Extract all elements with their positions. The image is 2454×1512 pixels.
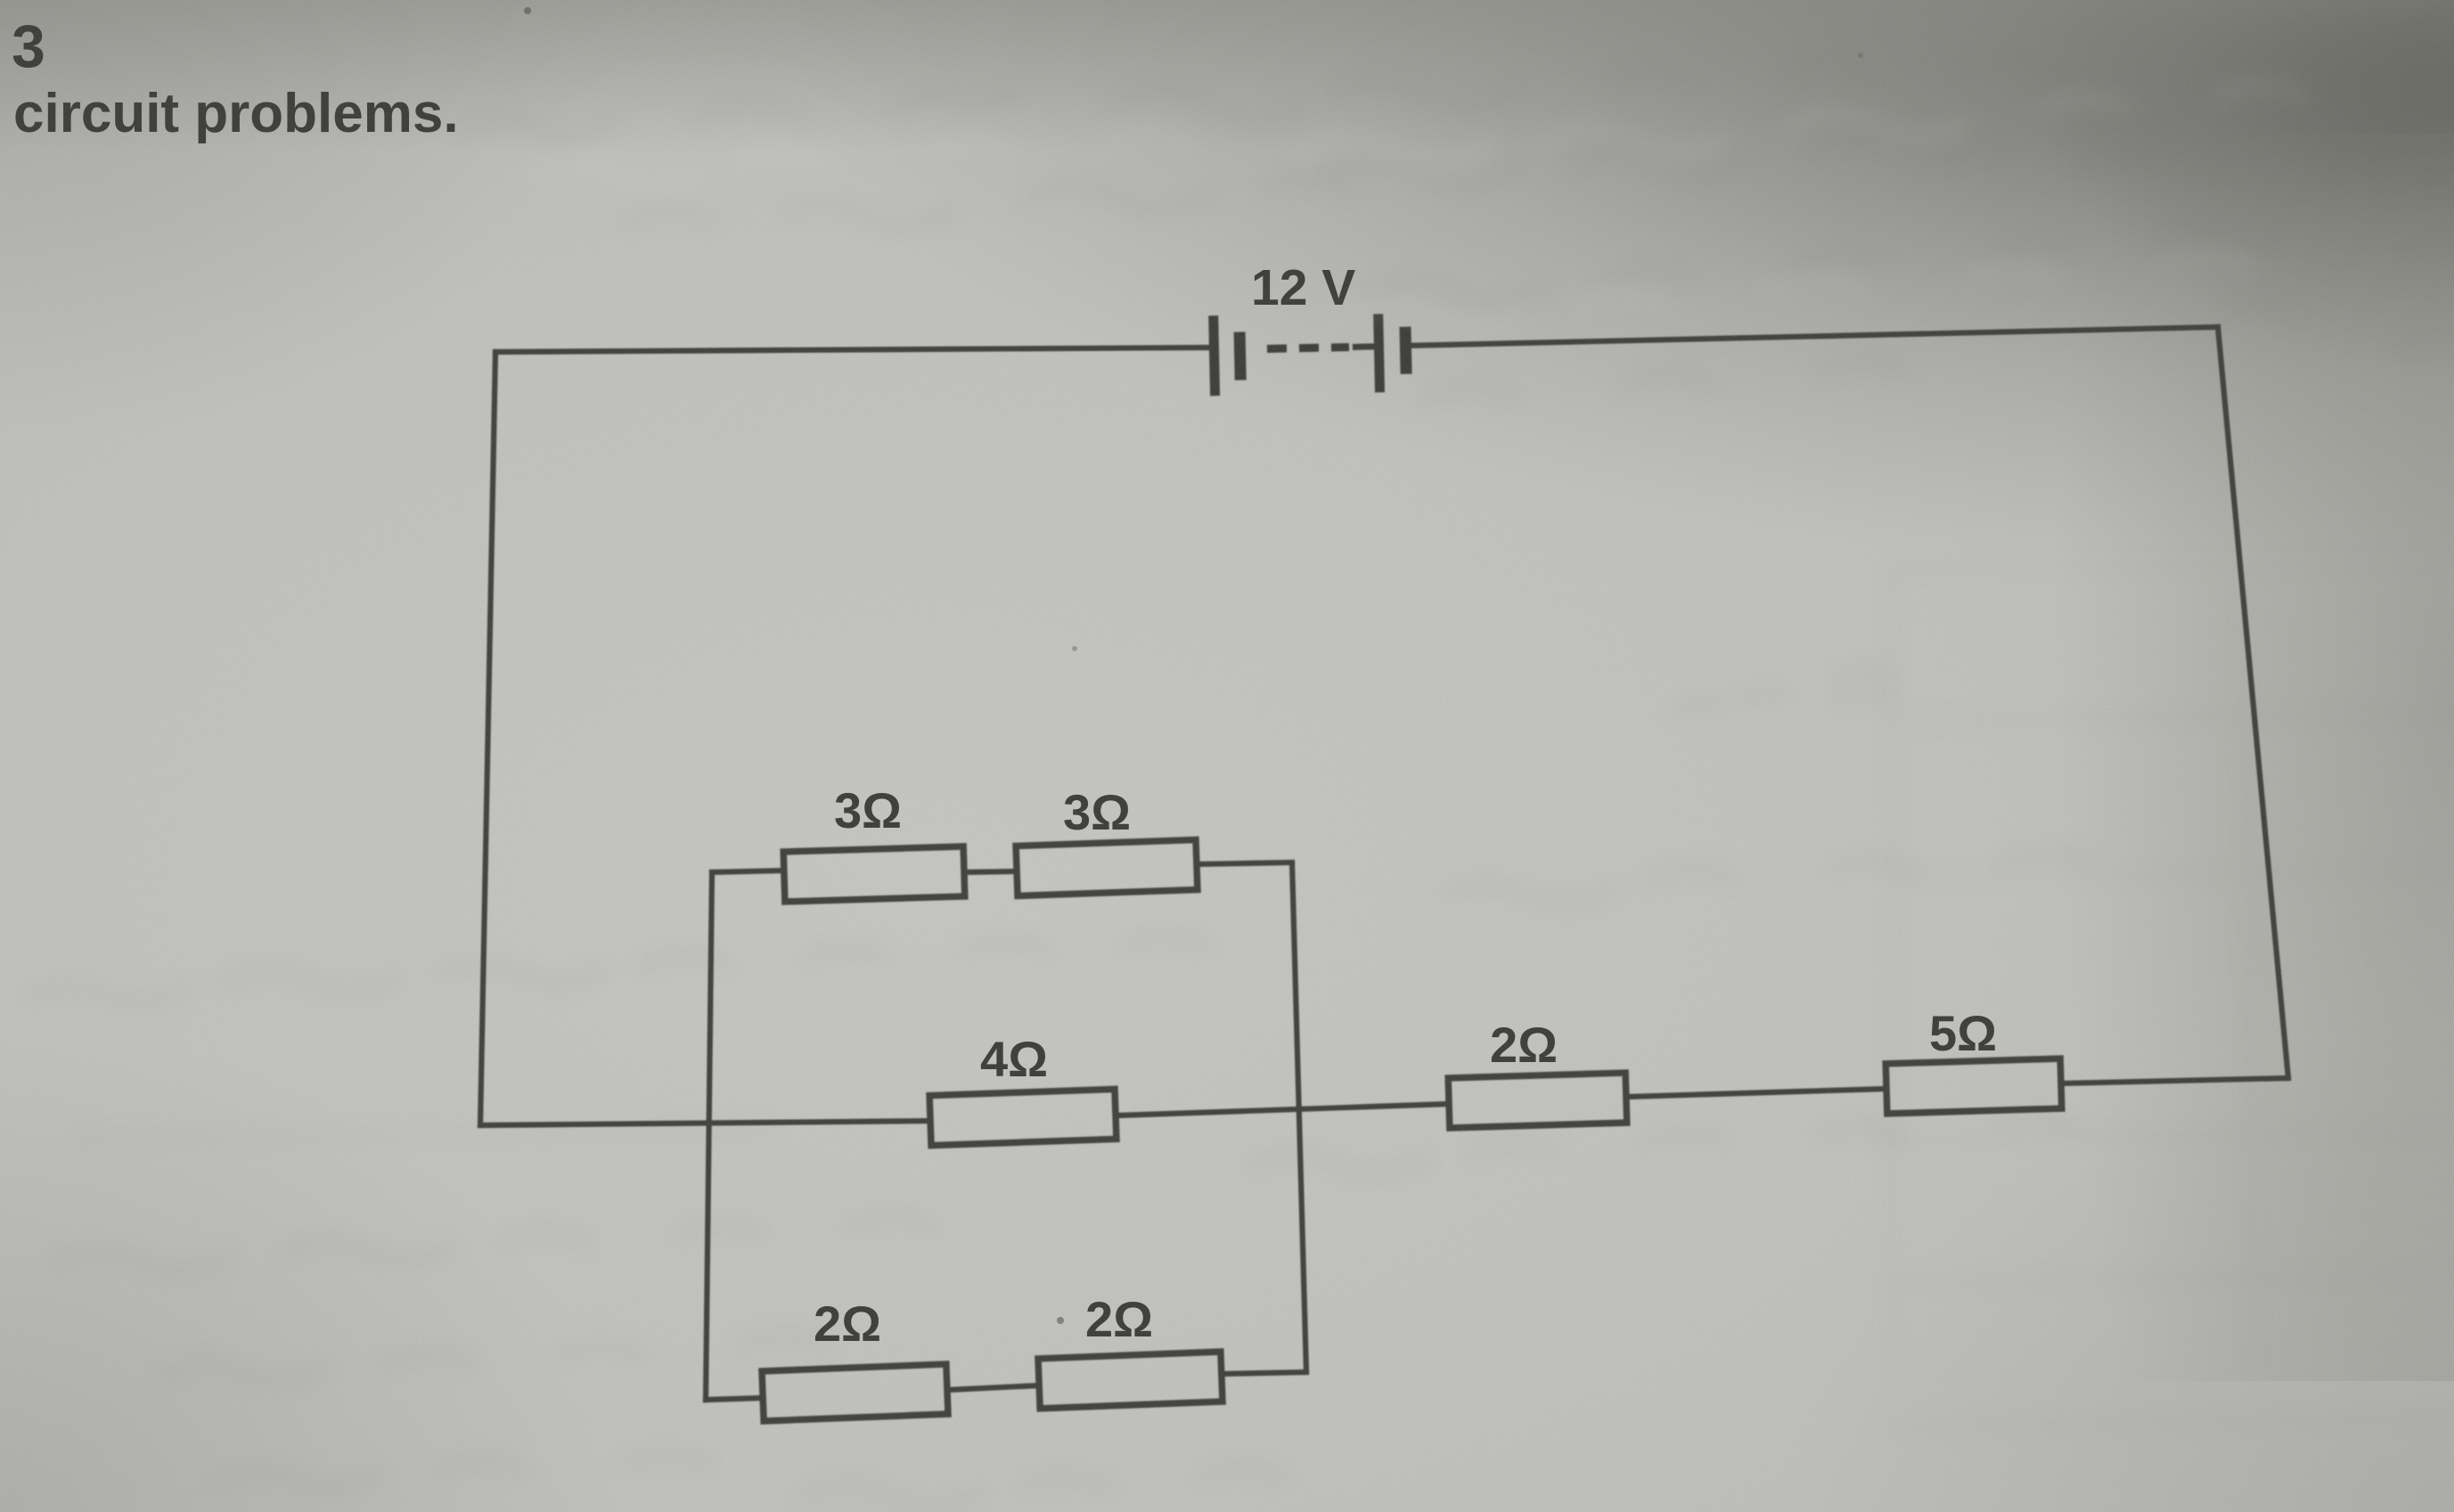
faint bleed-through of reverse page <box>1871 561 2454 1426</box>
wire bottom-right to 5-ohm <box>2061 1078 2288 1083</box>
resistor R7 5ohm right bus <box>1885 1058 2062 1114</box>
wire 4-ohm to left outer corner <box>480 1121 930 1125</box>
wire between bottom 2-ohm resistors <box>947 1385 1039 1390</box>
ghost emboss highlights top band <box>535 86 2303 328</box>
wire 5-ohm to 2-ohm <box>1626 1089 1886 1097</box>
ghost handwriting top band <box>463 59 2045 138</box>
battery long plate 2 <box>1373 314 1385 392</box>
speck dot above 4-ohm area <box>1072 646 1077 651</box>
wire bottom branch left stub <box>706 1398 763 1400</box>
resistor R3 4ohm <box>929 1089 1117 1145</box>
ghost handwriting bottom-right row <box>1247 1117 2076 1173</box>
battery long plate 1 <box>1208 315 1220 396</box>
resistor R1 3ohm <box>783 846 965 902</box>
faint straight crease <box>71 1130 775 1139</box>
ghost =1.5V mark <box>1675 669 1889 713</box>
wire parallel-block right vertical <box>1292 862 1306 1372</box>
resistor R4 2ohm bottom-left <box>762 1364 948 1421</box>
speck dot before bottom-right 2-ohm label <box>1057 1317 1064 1324</box>
wire top branch left stub <box>712 870 784 872</box>
wire top-left from corner to battery <box>495 347 1214 352</box>
resistor R2 3ohm <box>1016 839 1198 895</box>
wire right vertical <box>2218 327 2288 1078</box>
wire parallel-block left vertical <box>706 872 712 1400</box>
battery B1 12V <box>1208 312 1412 396</box>
wire battery to top-right corner <box>1406 327 2218 346</box>
ghost handwriting lower-left rows <box>53 1217 936 1271</box>
resistor R5 2ohm bottom-right <box>1038 1352 1223 1409</box>
speck dot top <box>524 7 531 14</box>
battery dashes <box>1267 345 1287 353</box>
ghost handwriting mid-right row <box>1444 850 2090 903</box>
wire 3-ohm to block top-right corner <box>1197 862 1292 864</box>
wire 2-ohm to 4-ohm through node <box>1116 1104 1449 1116</box>
wire left outer vertical <box>480 352 495 1125</box>
wire between 3-ohm resistors <box>964 871 1017 872</box>
wire bottom branch right stub <box>1222 1372 1306 1374</box>
battery short plate 2 <box>1399 327 1411 374</box>
ghost handwriting mid-left row <box>27 936 1207 1002</box>
resistor R6 2ohm right bus <box>1448 1073 1627 1128</box>
battery short plate 1 <box>1234 332 1247 380</box>
speck dot near battery label <box>1858 53 1863 58</box>
